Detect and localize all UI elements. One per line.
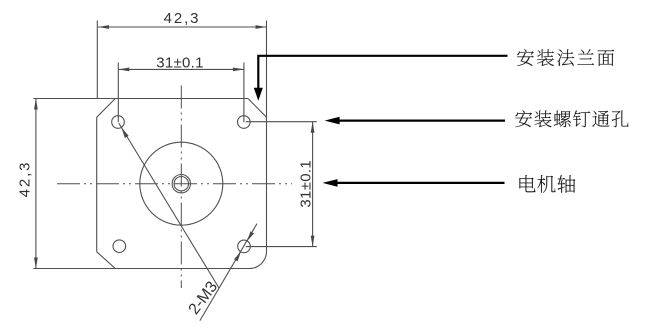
svg-text:2-M3: 2-M3 bbox=[186, 279, 222, 318]
svg-text:42,3: 42,3 bbox=[164, 10, 201, 27]
svg-text:31±0.1: 31±0.1 bbox=[156, 54, 204, 71]
svg-text:31±0.1: 31±0.1 bbox=[297, 160, 314, 208]
svg-text:42,3: 42,3 bbox=[16, 161, 33, 198]
